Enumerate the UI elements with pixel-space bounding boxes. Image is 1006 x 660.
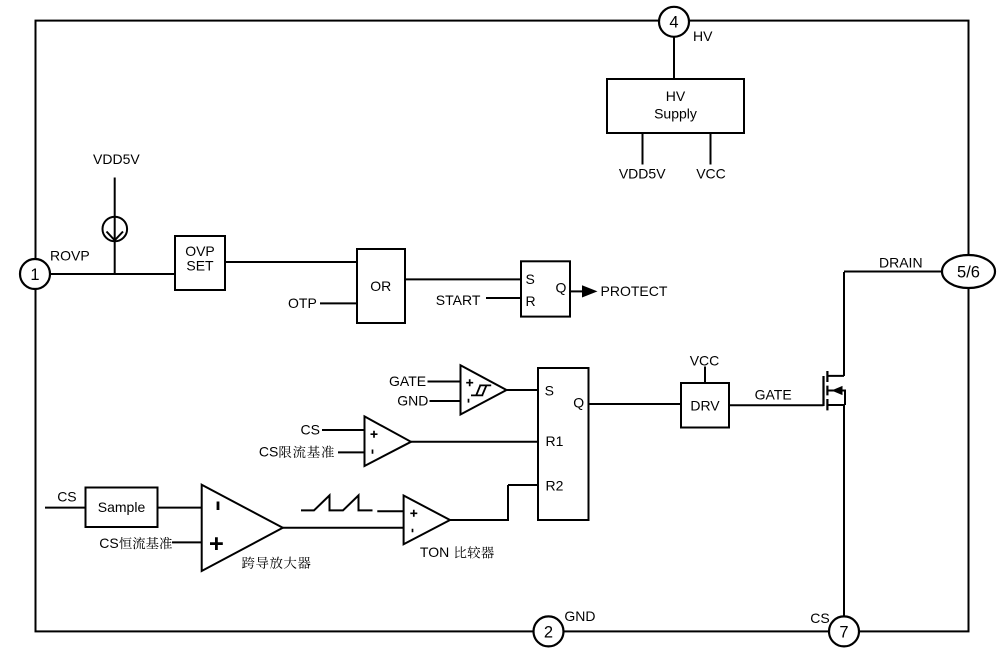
svg-text:S: S bbox=[526, 271, 535, 287]
svg-text:Supply: Supply bbox=[654, 106, 697, 122]
latch U4 (main SR latch) bbox=[538, 368, 589, 520]
svg-text:GATE: GATE bbox=[389, 373, 426, 389]
svg-text:Q: Q bbox=[556, 280, 567, 296]
wire pin4 to HV Supply bbox=[673, 37, 675, 79]
svg-text:TON: TON bbox=[420, 544, 449, 560]
svg-text:CS: CS bbox=[57, 489, 76, 505]
wire latch U2 Q output bbox=[570, 290, 583, 292]
gate OR bbox=[357, 249, 405, 323]
wire GATE to comparator U3 bbox=[428, 381, 461, 383]
wire VDD5V to current source bbox=[114, 178, 116, 218]
svg-text:DRAIN: DRAIN bbox=[879, 255, 923, 271]
wire Sample to amplifier U6 bbox=[158, 507, 202, 509]
svg-text:GND: GND bbox=[564, 608, 595, 624]
wire amplifier U6 to comparator U7 bbox=[283, 527, 404, 529]
wire CS限流基准 to comparator U5 bbox=[338, 451, 365, 453]
latch U2 (protect SR latch) bbox=[521, 261, 570, 316]
svg-text:1: 1 bbox=[30, 266, 39, 284]
svg-text:CS: CS bbox=[99, 535, 118, 551]
wire sawtooth to comparator U7 bbox=[377, 510, 403, 512]
block Sample bbox=[86, 488, 158, 528]
wire latch U4 Q to DRV bbox=[589, 403, 682, 405]
wire CS恒流基准 to amplifier U6 bbox=[172, 541, 202, 543]
net label CS限流基准 bbox=[259, 443, 334, 459]
wire START to latch U2 R input bbox=[486, 297, 521, 299]
svg-text:VDD5V: VDD5V bbox=[619, 166, 666, 182]
svg-text:CS: CS bbox=[259, 443, 278, 459]
block DRV bbox=[681, 383, 729, 428]
block HV Supply bbox=[607, 79, 744, 133]
svg-text:R1: R1 bbox=[546, 433, 564, 449]
svg-text:OR: OR bbox=[370, 278, 391, 294]
comparator U3 (schmitt trigger) bbox=[461, 365, 507, 414]
svg-text:5/6: 5/6 bbox=[957, 263, 980, 281]
op-amp U6 (transconductance amplifier 跨导放大器) bbox=[202, 485, 283, 571]
block OVP SET bbox=[175, 236, 225, 290]
current source I1 bbox=[103, 217, 128, 242]
svg-text:4: 4 bbox=[669, 14, 678, 32]
svg-text:DRV: DRV bbox=[690, 398, 720, 414]
wire drain to pin 5/6 bbox=[844, 271, 941, 273]
wire comparator U3 to latch U4 S input bbox=[507, 389, 539, 391]
svg-text:HV: HV bbox=[693, 28, 713, 44]
svg-text:GATE: GATE bbox=[755, 386, 792, 402]
wire CS to Sample block bbox=[45, 507, 86, 509]
arrow PROTECT bbox=[582, 285, 598, 297]
pin 5/6 bbox=[942, 255, 995, 288]
svg-text:HV: HV bbox=[666, 88, 686, 104]
wire transistor Q1 source to pin 7 bbox=[843, 405, 845, 617]
svg-text:Q: Q bbox=[573, 395, 584, 411]
wire comparator U5 to latch U4 R1 input bbox=[411, 441, 538, 443]
svg-text:7: 7 bbox=[839, 623, 848, 641]
svg-text:GND: GND bbox=[397, 393, 428, 409]
wire HV Supply VCC stub bbox=[710, 133, 712, 165]
svg-text:PROTECT: PROTECT bbox=[601, 283, 668, 299]
wire into latch U4 R2 input bbox=[508, 484, 538, 486]
svg-text:R: R bbox=[526, 293, 536, 309]
transistor Q1 (power MOSFET) bbox=[824, 371, 846, 410]
label TON 比较器 bbox=[420, 544, 494, 560]
svg-text:CS: CS bbox=[301, 421, 320, 437]
wire OVP SET to OR gate bbox=[225, 261, 357, 263]
svg-text:Sample: Sample bbox=[98, 499, 146, 515]
wire VCC to DRV bbox=[704, 367, 706, 384]
wire GND to comparator U3 bbox=[430, 400, 461, 402]
wire riser to R2 bbox=[507, 485, 509, 521]
wire DRV to transistor Q1 gate bbox=[729, 404, 824, 406]
wire pin1 to OVP SET bbox=[51, 273, 176, 275]
wire transistor Q1 drain riser bbox=[843, 272, 845, 376]
svg-text:SET: SET bbox=[186, 258, 214, 274]
svg-text:CS: CS bbox=[810, 610, 829, 626]
wire current source to ROVP net bbox=[114, 241, 116, 274]
svg-text:ROVP: ROVP bbox=[50, 247, 90, 263]
pin 1 bbox=[20, 259, 50, 289]
svg-text:S: S bbox=[545, 383, 554, 399]
pin 7 bbox=[829, 616, 859, 646]
wire comparator U7 output bbox=[450, 519, 508, 521]
wire HV Supply VDD5V stub bbox=[642, 133, 644, 165]
pin 2 bbox=[534, 616, 564, 646]
pin 4 bbox=[659, 7, 689, 37]
svg-text:VCC: VCC bbox=[696, 166, 726, 182]
comparator U7 (TON comparator) bbox=[404, 496, 450, 545]
wire OTP to OR gate bbox=[320, 302, 357, 304]
svg-text:2: 2 bbox=[544, 623, 553, 641]
svg-text:VDD5V: VDD5V bbox=[93, 151, 140, 167]
wire OR to latch U2 S input bbox=[405, 278, 521, 280]
svg-text:OTP: OTP bbox=[288, 295, 317, 311]
svg-text:START: START bbox=[436, 292, 481, 308]
svg-text:VCC: VCC bbox=[690, 352, 720, 368]
label 跨导放大器 bbox=[242, 557, 311, 569]
sawtooth ramp symbol bbox=[301, 495, 373, 510]
comparator U5 (CS current limit) bbox=[365, 416, 412, 466]
svg-text:R2: R2 bbox=[546, 477, 564, 493]
net label CS恒流基准 bbox=[99, 535, 172, 551]
wire CS to comparator U5 bbox=[322, 429, 365, 431]
